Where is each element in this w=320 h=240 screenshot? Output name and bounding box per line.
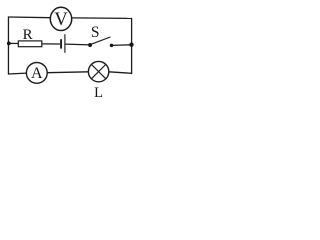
svg-text:L: L [94, 85, 103, 101]
svg-text:S: S [91, 24, 100, 41]
svg-text:A: A [31, 65, 43, 82]
svg-text:R: R [23, 27, 33, 43]
svg-text:V: V [54, 10, 68, 30]
